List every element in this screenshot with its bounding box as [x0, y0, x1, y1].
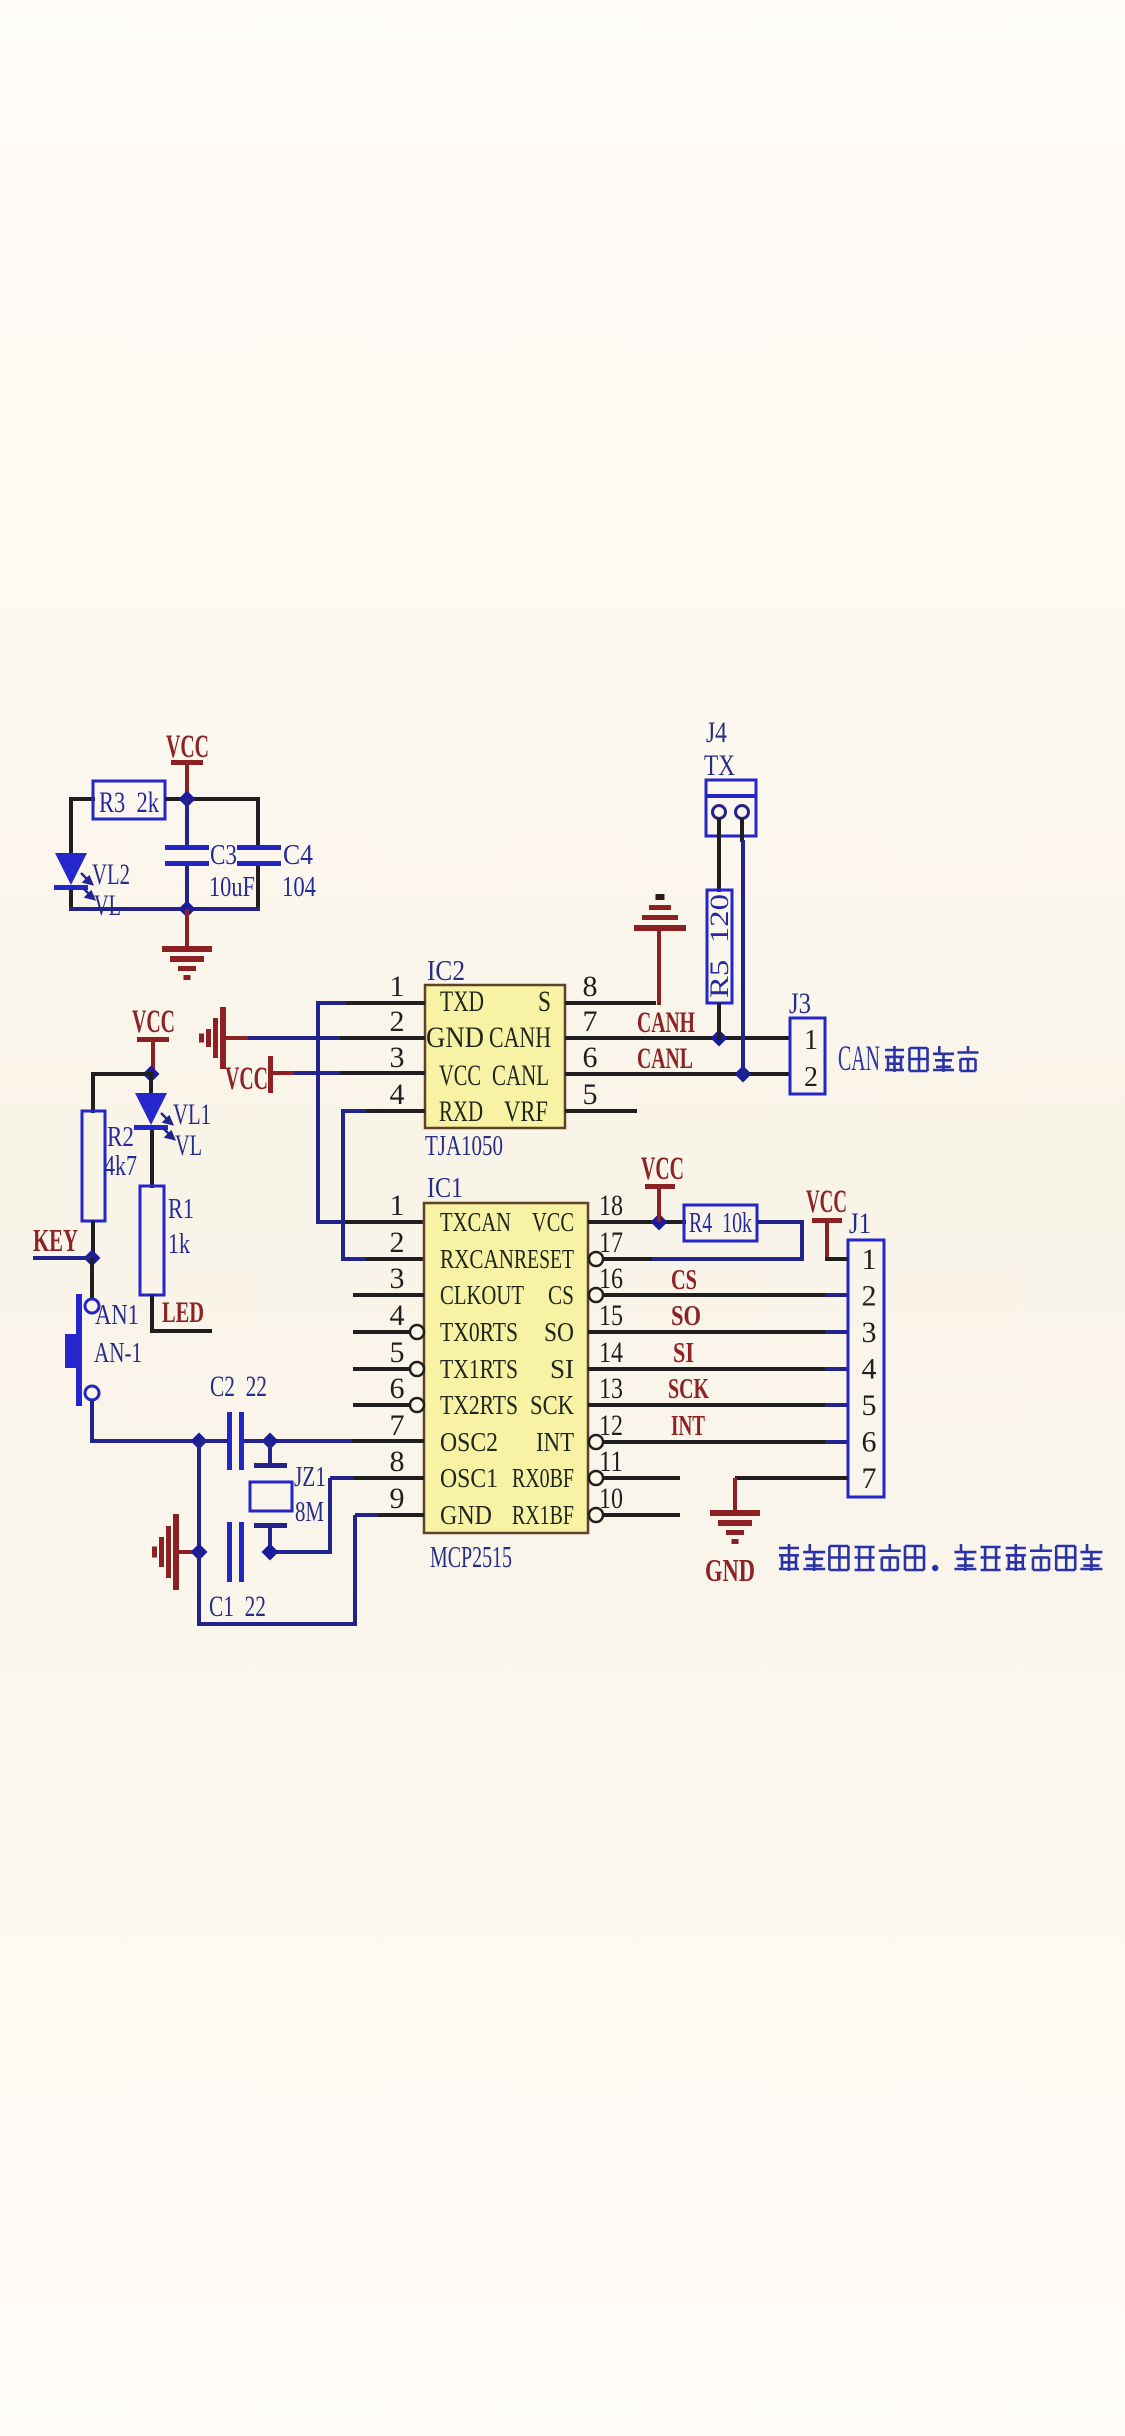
crystal JZ1: [268, 1441, 272, 1466]
ground symbol (oscillator): [173, 1514, 179, 1590]
svg-text:RXD: RXD: [439, 1095, 483, 1128]
wire R3 right to C4 corner: [165, 797, 260, 801]
wire C2 left: [199, 1439, 228, 1443]
wire IC2 pin2 GND: [246, 1036, 342, 1040]
svg-text:RX1BF: RX1BF: [512, 1500, 574, 1530]
svg-text:4: 4: [390, 1078, 405, 1111]
svg-text:C2 22: C2 22: [210, 1370, 267, 1403]
svg-text:C3: C3: [210, 839, 237, 871]
svg-text:15: 15: [599, 1299, 623, 1332]
IC1 right bubbles: [589, 1252, 603, 1266]
wire C2 right to OSC2: [243, 1439, 270, 1443]
capacitor C2: [227, 1412, 232, 1470]
svg-text:5: 5: [583, 1078, 598, 1111]
label CAN communication port (chinese): [885, 1046, 904, 1072]
svg-text:C4: C4: [283, 839, 313, 871]
svg-text:AN1: AN1: [95, 1300, 139, 1331]
svg-text:CANL: CANL: [637, 1042, 693, 1075]
wire switch to oscillator rail: [90, 1400, 94, 1443]
svg-text:VCC: VCC: [439, 1059, 481, 1092]
svg-text:VCC: VCC: [225, 1061, 268, 1097]
wire IC1 pin18 VCC to R4: [588, 1220, 686, 1224]
node junction VCC-R4: [651, 1214, 668, 1231]
svg-text:9: 9: [390, 1482, 405, 1515]
svg-text:CS: CS: [548, 1280, 574, 1310]
IC U-IC1 MCP2515 body: [424, 1203, 588, 1533]
svg-text:TXCAN: TXCAN: [440, 1207, 511, 1237]
IC1 pin9 GND wire: [353, 1515, 357, 1626]
wire pin17 stub: [603, 1257, 652, 1261]
IC1 pin6 TX2RTS bubble and stub: [410, 1398, 424, 1412]
svg-text:GND: GND: [426, 1021, 484, 1054]
svg-text:JZ1: JZ1: [294, 1462, 326, 1493]
svg-text:5: 5: [390, 1336, 405, 1369]
node junction at VCC rail: [179, 791, 196, 808]
node junction bottom rail: [179, 901, 196, 918]
svg-text:R1: R1: [168, 1194, 194, 1225]
wire left riser: [197, 1441, 201, 1554]
svg-text:VRF: VRF: [504, 1095, 548, 1128]
wire R5 to CANH: [717, 1003, 721, 1040]
wire pin12 INT to J1: [603, 1440, 827, 1444]
svg-text:CANL: CANL: [492, 1059, 549, 1092]
wire bottom loop to GND pin: [197, 1552, 201, 1626]
wire ground stub red: [174, 1550, 201, 1554]
svg-text:CS: CS: [671, 1264, 697, 1296]
wire pin16 CS to J1: [603, 1293, 827, 1297]
svg-text:1: 1: [390, 970, 405, 1003]
node junction CANL-J4: [735, 1066, 752, 1083]
wire VCC stem: [185, 763, 189, 800]
svg-text:6: 6: [390, 1372, 405, 1405]
svg-text:VCC: VCC: [166, 729, 209, 765]
wire J4 pin2 down to CANL: [740, 818, 744, 842]
svg-text:14: 14: [599, 1336, 623, 1369]
wire VL2 anode drop: [69, 797, 73, 853]
svg-text:3: 3: [862, 1316, 877, 1349]
wire to R2: [93, 1072, 153, 1076]
svg-text:8M: 8M: [295, 1497, 324, 1528]
svg-text:7: 7: [862, 1462, 877, 1495]
svg-text:1: 1: [390, 1189, 405, 1222]
svg-text:SO: SO: [544, 1317, 574, 1347]
svg-text:RESET: RESET: [514, 1244, 574, 1274]
svg-text:6: 6: [862, 1426, 877, 1459]
svg-text:VL: VL: [94, 889, 121, 922]
wire IC2 pin6 CANL: [565, 1072, 790, 1076]
svg-text:S: S: [538, 985, 551, 1018]
svg-text:1k: 1k: [168, 1229, 190, 1260]
wire pin14 SI to J1: [588, 1367, 827, 1371]
svg-text:R2: R2: [107, 1122, 134, 1153]
svg-text:2: 2: [390, 1226, 405, 1259]
svg-text:8: 8: [583, 970, 598, 1003]
svg-text:R5 120: R5 120: [705, 894, 734, 998]
IC1 pin5 TX1RTS bubble and stub: [410, 1362, 424, 1376]
caption module control port (chinese): [779, 1544, 799, 1571]
svg-text:VL: VL: [175, 1129, 202, 1162]
svg-text:C1 22: C1 22: [209, 1590, 266, 1623]
wire IC2 pin8 S to ground: [565, 1001, 656, 1005]
svg-text:2: 2: [390, 1005, 405, 1038]
node junction C1 left: [191, 1544, 208, 1561]
resistor R3: [93, 781, 165, 819]
svg-text:10uF: 10uF: [209, 871, 255, 903]
connector J1: [848, 1240, 884, 1497]
wire crystal to OSC1 riser: [268, 1550, 332, 1554]
svg-text:SI: SI: [550, 1354, 574, 1384]
svg-text:4: 4: [390, 1299, 405, 1332]
IC1 pin8 OSC1 wire: [328, 1478, 332, 1554]
svg-text:2: 2: [804, 1062, 818, 1093]
svg-text:18: 18: [599, 1189, 623, 1222]
IC1 pin4 TX0RTS bubble and stub: [410, 1325, 424, 1339]
wire IC2 pin1 TXD to IC1 TXCAN (vertical bus): [316, 1001, 320, 1224]
svg-text:VL1: VL1: [173, 1098, 211, 1131]
node junction C2 left: [191, 1433, 208, 1450]
IC1 pin7 OSC2 wire: [268, 1439, 354, 1443]
svg-text:SCK: SCK: [530, 1390, 574, 1420]
svg-text:MCP2515: MCP2515: [430, 1539, 512, 1574]
svg-text:3: 3: [390, 1041, 405, 1074]
svg-text:LED: LED: [162, 1296, 204, 1329]
svg-text:TX1RTS: TX1RTS: [440, 1354, 518, 1384]
node junction VCC-left: [143, 1066, 160, 1083]
svg-text:104: 104: [282, 871, 316, 903]
wire IC2 pin4 RXD to IC1 RXCAN: [341, 1109, 345, 1261]
svg-text:VCC: VCC: [806, 1184, 847, 1220]
ground symbol (top-left): [162, 946, 212, 952]
resistor R1: [140, 1186, 164, 1295]
svg-text:VCC: VCC: [532, 1207, 574, 1237]
svg-text:INT: INT: [671, 1410, 705, 1442]
svg-text:13: 13: [599, 1372, 623, 1405]
wire J1 pin7 to GND: [735, 1476, 848, 1480]
svg-text:RX0BF: RX0BF: [512, 1463, 574, 1493]
svg-text:TX2RTS: TX2RTS: [440, 1390, 518, 1420]
svg-text:KEY: KEY: [33, 1222, 78, 1258]
svg-text:1: 1: [862, 1243, 877, 1276]
svg-text:8: 8: [390, 1445, 405, 1478]
wire R4 to RESET loop: [650, 1222, 802, 1259]
wire ground stub red: [221, 1036, 248, 1040]
wire pin15 SO to J1: [588, 1330, 827, 1334]
wire VCC stub red: [271, 1071, 296, 1075]
svg-text:4: 4: [862, 1353, 877, 1386]
wire R1 to LED stub: [150, 1295, 154, 1333]
svg-text:INT: INT: [536, 1427, 574, 1457]
svg-text:J3: J3: [789, 987, 811, 1020]
svg-text:CAN: CAN: [838, 1038, 880, 1078]
svg-text:GND: GND: [440, 1500, 492, 1530]
ground symbol (J1): [710, 1510, 760, 1516]
capacitor C3: [185, 799, 189, 847]
svg-text:IC1: IC1: [427, 1173, 463, 1204]
svg-text:TX0RTS: TX0RTS: [440, 1317, 518, 1347]
wire IC2 pin5 VRF stub: [565, 1109, 637, 1113]
svg-text:6: 6: [583, 1041, 598, 1074]
svg-text:TJA1050: TJA1050: [425, 1131, 503, 1162]
node KEY junction: [84, 1250, 101, 1267]
svg-text:VCC: VCC: [132, 1004, 175, 1040]
wire VL1 to R1: [150, 1130, 154, 1188]
svg-text:3: 3: [390, 1262, 405, 1295]
svg-text:J4: J4: [706, 716, 727, 749]
svg-text:VCC: VCC: [641, 1151, 684, 1187]
wire VCC stem left: [151, 1040, 155, 1076]
svg-text:1: 1: [804, 1025, 818, 1056]
svg-text:AN-1: AN-1: [94, 1338, 142, 1369]
wire VCC to J1 pin1: [825, 1257, 848, 1261]
svg-text:CANH: CANH: [637, 1006, 695, 1039]
wire KEY stub: [33, 1256, 92, 1260]
wire ground stem: [185, 909, 189, 948]
svg-text:GND: GND: [705, 1552, 755, 1588]
ground symbol (IC2 GND): [220, 1007, 226, 1069]
svg-text:SO: SO: [671, 1300, 701, 1332]
svg-text:4k7: 4k7: [104, 1151, 137, 1182]
resistor R4 10k: [684, 1205, 757, 1241]
resistor R2: [82, 1111, 105, 1221]
wire bottom rail: [69, 890, 73, 911]
svg-text:7: 7: [390, 1409, 405, 1442]
wire pin13 SCK to J1: [588, 1403, 827, 1407]
svg-text:J1: J1: [849, 1207, 871, 1240]
resistor R5 120: [707, 890, 732, 1003]
pushbutton AN1: [85, 1299, 99, 1313]
capacitor C4: [237, 845, 281, 850]
svg-text:R4 10k: R4 10k: [689, 1208, 752, 1239]
svg-text:5: 5: [862, 1389, 877, 1422]
svg-text:7: 7: [583, 1005, 598, 1038]
svg-text:OSC1: OSC1: [440, 1463, 498, 1493]
wire IC2 pin7 CANH: [565, 1036, 790, 1040]
svg-text:TX: TX: [704, 749, 735, 782]
svg-text:RXCAN: RXCAN: [440, 1244, 514, 1274]
svg-text:CANH: CANH: [489, 1021, 551, 1054]
IC U-IC2 TJA1050 body: [425, 985, 565, 1128]
svg-text:VL2: VL2: [92, 858, 130, 891]
wire R2 to KEY node: [91, 1221, 95, 1260]
svg-text:SCK: SCK: [668, 1373, 709, 1405]
wire J4 pin1 down to R5: [717, 818, 721, 892]
wire IC2 pin3 VCC: [294, 1071, 342, 1075]
node junction CANH-R5: [711, 1030, 728, 1047]
wire to switch: [90, 1258, 94, 1300]
LED VL1: [135, 1093, 167, 1125]
node junction C2 right: [262, 1433, 279, 1450]
svg-text:IC2: IC2: [427, 956, 465, 987]
wire R3 left: [71, 797, 95, 801]
connector J4 jumper: [706, 780, 756, 836]
node junction C1 right: [262, 1544, 279, 1561]
IC1 pin3 CLKOUT stub: [353, 1293, 424, 1297]
wire pin10 RX1BF stub: [603, 1513, 680, 1517]
capacitor C1: [227, 1522, 232, 1582]
LED VL1 stem: [149, 1072, 153, 1093]
svg-text:SI: SI: [673, 1337, 694, 1369]
LED VL2: [55, 853, 87, 885]
svg-text:R3 2k: R3 2k: [99, 786, 159, 819]
connector J3: [790, 1018, 825, 1094]
svg-text:2: 2: [862, 1280, 877, 1313]
svg-text:CLKOUT: CLKOUT: [440, 1280, 524, 1310]
svg-text:OSC2: OSC2: [440, 1427, 498, 1457]
svg-text:TXD: TXD: [440, 985, 484, 1018]
wire pin11 RX0BF stub: [603, 1476, 680, 1480]
ground symbol (IC2 S pin): [634, 925, 686, 931]
